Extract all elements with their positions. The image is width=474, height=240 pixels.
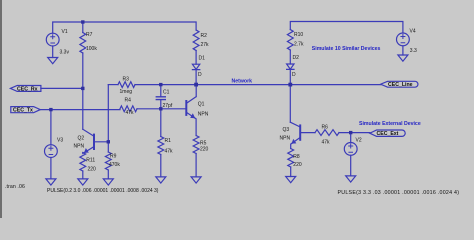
port flag CEC_Line (381, 81, 418, 87)
wire R2 to D1 (195, 51, 197, 65)
wire R3 left lead (108, 84, 118, 86)
ground (V3) (46, 179, 56, 185)
wire Q1 emitter to R5 (195, 118, 197, 136)
junction Q2 base / R9 (107, 140, 110, 143)
wire Q2 emitter to R11 (82, 152, 84, 154)
wire CEC_Tx to R4 and Q1 base (40, 109, 120, 111)
wire V2 to ground (350, 155, 352, 176)
svg-text:R8: R8 (293, 154, 300, 160)
wire R7 top lead (82, 22, 84, 33)
svg-text:R2: R2 (201, 33, 208, 39)
resistor R3 (118, 82, 135, 88)
svg-text:NPN: NPN (280, 136, 291, 142)
wire D1 to Network node D (195, 70, 197, 85)
svg-text:470k: 470k (109, 162, 120, 168)
svg-text:NPN: NPN (198, 112, 209, 118)
port flag CEC_Ext (370, 130, 405, 136)
ground (R5) (191, 177, 201, 183)
svg-text:PULSE(3 3.3 .03 .00001 .00001: PULSE(3 3.3 .03 .00001 .00001 .0016 .002… (338, 190, 460, 196)
junction R3 wire / C1 top (159, 83, 162, 86)
ground (R8) (286, 177, 296, 183)
svg-text:Simulate External Device: Simulate External Device (359, 121, 421, 127)
svg-text:R4: R4 (125, 98, 132, 104)
port flag CEC_Tx (11, 107, 41, 113)
transistor Q1 (NPN) (185, 101, 187, 115)
resistor R6 (315, 130, 339, 136)
svg-text:47k: 47k (126, 110, 135, 116)
svg-text:D: D (292, 72, 296, 78)
voltage source V3 (45, 145, 58, 158)
wire Q3 emitter to R8 (291, 143, 292, 148)
resistor R5 (193, 136, 199, 154)
wire V3 to ground (50, 158, 52, 179)
svg-text:D2: D2 (293, 55, 300, 61)
transistor Q2 (mirrored NPN) (93, 135, 95, 149)
resistor R8 (288, 149, 294, 168)
svg-text:V4: V4 (410, 29, 416, 35)
junction CEC_Rx / R7 / Q2 collector (81, 87, 84, 90)
wire R5 to ground (195, 154, 197, 177)
svg-text:V3: V3 (57, 138, 63, 144)
svg-text:R10: R10 (294, 32, 303, 38)
svg-text:CEC_Line: CEC_Line (388, 82, 413, 88)
junction node D / D1 / Q1 collector / Network (194, 83, 198, 87)
svg-text:D: D (198, 72, 202, 78)
svg-text:R7: R7 (86, 32, 93, 38)
svg-text:47k: 47k (165, 149, 174, 155)
wire R3 to Network right (135, 84, 381, 86)
svg-text:Network: Network (232, 79, 253, 85)
wire R10 to D2 (289, 50, 291, 64)
resistor R1 (158, 137, 164, 155)
svg-text:R9: R9 (110, 154, 117, 160)
svg-text:220: 220 (293, 162, 302, 168)
wire V2 stem (350, 133, 352, 143)
Q2 emitter arrow (84, 149, 88, 153)
wire R8 to ground (290, 167, 292, 177)
svg-text:3.3v: 3.3v (60, 50, 70, 56)
svg-text:V1: V1 (62, 29, 68, 35)
wire V3 stem (50, 110, 52, 145)
wire R6 to CEC_Ext flag (339, 132, 370, 134)
voltage source V2 (344, 143, 357, 156)
svg-text:R3: R3 (123, 77, 130, 83)
junction Network / D2 / Q3 collector (288, 83, 292, 87)
resistor R9 (105, 152, 111, 170)
ground (R11) (78, 179, 88, 185)
wire R4 right lead to Q1 base (Tx wire at y109.6 joins base lead) (137, 108, 186, 110)
ground (V1) (48, 58, 58, 64)
junction CEC_Tx / V3 (49, 108, 52, 111)
svg-text:CEC_Ext: CEC_Ext (377, 131, 399, 137)
ground (V2) (346, 176, 356, 182)
wire R11 to ground (82, 171, 84, 179)
svg-text:47k: 47k (322, 140, 331, 146)
window left edge (0, 0, 2, 218)
svg-text:V2: V2 (356, 138, 362, 144)
svg-text:CEC_Tx: CEC_Tx (13, 108, 33, 114)
Q3 emitter arrow (292, 140, 296, 144)
capacitor C1 top lead (160, 85, 162, 97)
svg-text:27k: 27k (201, 42, 210, 48)
wire top-left rail V1 to R2 (53, 22, 196, 33)
svg-text:PULSE(0.2 3.0 .006 .00001 .000: PULSE(0.2 3.0 .006 .00001 .00001 .0008 .… (47, 188, 159, 194)
ground (V4) (398, 55, 408, 61)
svg-text:.tran .06: .tran .06 (5, 184, 25, 190)
wire V4 to ground (402, 46, 404, 55)
diode D2 (287, 64, 294, 69)
voltage source V1 (46, 33, 59, 46)
diode D1 (192, 64, 199, 69)
svg-text:Q3: Q3 (283, 127, 290, 133)
resistor R11 (80, 153, 86, 172)
junction Tx wire / C1 bottom / R1 (159, 107, 162, 110)
junction rail-R7 (81, 20, 84, 23)
resistor R4 (120, 106, 137, 112)
transistor Q3 (mirrored NPN) (299, 125, 301, 139)
svg-text:Simulate 10 Similar Devices: Simulate 10 Similar Devices (312, 46, 381, 52)
resistor R2 (193, 30, 199, 51)
wire Network node down to Q3 collector (289, 85, 291, 123)
svg-text:CEC_Rx: CEC_Rx (17, 86, 38, 92)
svg-text:27pf: 27pf (163, 103, 173, 109)
wire Q2 base node vertical (R3 corner down to base junction) (107, 85, 109, 142)
svg-text:Q2: Q2 (78, 136, 85, 142)
capacitor C1 plates (156, 97, 165, 100)
svg-text:C1: C1 (163, 90, 170, 96)
voltage source V4 (397, 33, 410, 46)
svg-text:220: 220 (88, 167, 97, 173)
wire D2 to Network node D (289, 69, 291, 84)
wire R7 bottom to Q2 collector (82, 53, 84, 129)
wire R9 top lead (107, 142, 109, 152)
svg-text:3.3: 3.3 (410, 48, 417, 54)
svg-text:D1: D1 (199, 56, 206, 62)
wire R1 to ground (160, 155, 162, 177)
wire top-right rail R10 to V4 (290, 22, 403, 34)
wire R9 to ground (107, 170, 109, 179)
svg-text:1meg: 1meg (120, 89, 133, 95)
capacitor C1 bottom lead (160, 100, 162, 109)
svg-text:100k: 100k (86, 46, 97, 52)
port flag CEC_Rx (10, 86, 41, 92)
ground (R1) (156, 177, 166, 183)
resistor R7 (80, 33, 86, 54)
svg-text:NPN: NPN (74, 144, 85, 150)
svg-text:Q1: Q1 (198, 102, 205, 108)
junction R6 / V2 / CEC_Ext (349, 131, 352, 134)
wire C1 node down to R1 (160, 109, 162, 137)
svg-text:2.7k: 2.7k (294, 42, 304, 48)
ground (R9) (103, 179, 113, 185)
resistor R10 (287, 30, 293, 51)
svg-text:R6: R6 (322, 125, 329, 131)
wire V1 to ground (52, 46, 54, 58)
wire CEC_Rx to R7 node (41, 87, 83, 89)
Q1 emitter arrow (191, 114, 195, 118)
svg-text:220: 220 (200, 147, 209, 153)
svg-text:R1: R1 (165, 138, 172, 144)
svg-text:R11: R11 (86, 158, 95, 164)
